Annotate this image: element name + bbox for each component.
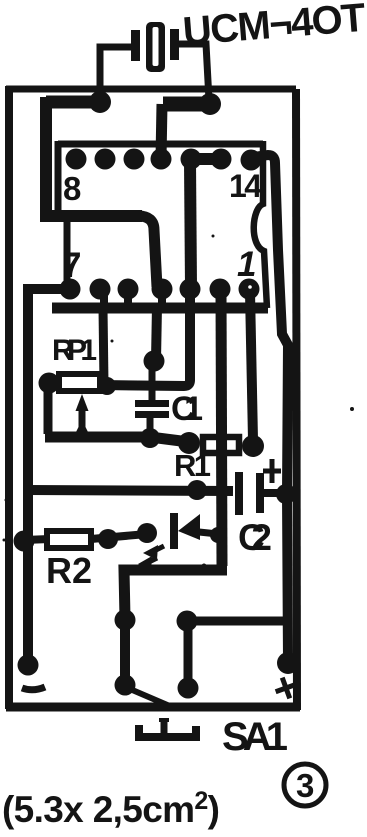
pad C1 top xyxy=(144,351,165,372)
pad minus terminal xyxy=(18,655,39,676)
svg-text:C2: C2 xyxy=(238,517,272,558)
switch SA1 symbol xyxy=(139,719,196,737)
resistor R2 body xyxy=(47,531,91,548)
pad right net bottom xyxy=(178,678,199,699)
wire pin2 elbow to switch pads xyxy=(124,570,227,618)
IC top row pads pins 8-14 xyxy=(66,149,262,171)
wire C1 top lead xyxy=(149,360,156,401)
IC bottom row pads pins 7-1 xyxy=(60,279,260,300)
crystal ZQ1 left lead xyxy=(100,47,134,98)
pad on C2 row xyxy=(187,480,207,500)
circled figure number 3 xyxy=(284,764,326,806)
plus sign near C2 xyxy=(263,459,281,483)
junction diode to pin2 column xyxy=(210,527,226,543)
svg-text:R2: R2 xyxy=(46,550,92,591)
wire left rail to pin7 xyxy=(28,284,70,294)
svg-text:R1: R1 xyxy=(174,448,211,483)
wire C1 column xyxy=(156,306,157,360)
pad on bus below C1 xyxy=(140,428,160,448)
wire pin3 column to RP1 row xyxy=(100,292,190,386)
wire diode anode lead xyxy=(199,532,218,534)
capacitor C2 plates xyxy=(235,472,284,515)
svg-text:1: 1 xyxy=(237,245,256,284)
svg-text:(5.3x 2,5cm2): (5.3x 2,5cm2) xyxy=(2,787,220,830)
pad crystal left xyxy=(89,91,111,113)
junction pad RP1 right xyxy=(98,377,116,395)
wire pin1 column down to R1 right pad xyxy=(250,292,253,440)
wire pin12 to pin3 vertical xyxy=(190,162,191,287)
wire right net horizontal xyxy=(187,617,287,626)
RP1 wiper arrow xyxy=(75,394,89,434)
resistor R1 body xyxy=(203,437,239,453)
pad R2 left on rail xyxy=(14,531,35,552)
wire RP1 left leg down xyxy=(44,390,53,434)
diode VD1 cathode bar xyxy=(170,513,178,549)
capacitor C1 xyxy=(135,400,169,434)
svg-text:RP1: RP1 xyxy=(52,334,97,367)
pad RP1 left xyxy=(39,373,60,394)
crystal ZQ1 left plate xyxy=(131,30,140,61)
wire bus under IC xyxy=(52,303,268,314)
LED arrows xyxy=(138,545,207,571)
crystal ZQ1 body xyxy=(146,22,165,72)
diode VD1 triangle xyxy=(178,514,200,540)
pad R1 left xyxy=(178,432,200,454)
wire bus C1/R1 row xyxy=(45,437,189,442)
svg-text:UCM¬4OT: UCM¬4OT xyxy=(181,0,367,54)
svg-text:3: 3 xyxy=(296,767,314,804)
wire right net vertical pair xyxy=(184,621,193,688)
wire bus R2/C2 row xyxy=(28,490,233,491)
svg-text:C1: C1 xyxy=(171,390,203,428)
pad R1 right xyxy=(242,435,264,457)
pad right net top xyxy=(177,611,198,632)
pad diode cathode xyxy=(137,523,157,543)
potentiometer RP1 body xyxy=(59,374,100,391)
IC U1 outline xyxy=(58,141,267,308)
scan speckles xyxy=(3,235,355,542)
wire pin2 long column xyxy=(221,292,222,566)
wire switch left column xyxy=(120,620,130,685)
pad switch left top xyxy=(115,610,136,631)
svg-text:8: 8 xyxy=(63,170,81,207)
minus sign xyxy=(22,687,45,690)
crystal ZQ1 right plate xyxy=(170,29,179,60)
wire crystal-left to pin7 column xyxy=(46,97,191,287)
wire R2 to diode xyxy=(91,534,147,539)
crystal ZQ1 right lead xyxy=(177,44,209,100)
wire crystal-right to pin11 xyxy=(161,104,209,159)
pad crystal right xyxy=(199,93,221,115)
plus sign bottom right xyxy=(272,674,300,702)
board outline border xyxy=(6,86,300,710)
junction pad C2 right xyxy=(276,484,296,504)
wire pad stubs to bus xyxy=(104,294,162,306)
svg-text:SA1: SA1 xyxy=(222,715,288,759)
wire pin6 column to RP1 xyxy=(103,308,104,384)
wire right rail from pin14 xyxy=(253,155,288,660)
wire pin12-pin13 dumbbell xyxy=(191,153,221,165)
pad switch left bottom xyxy=(115,675,136,696)
wire left rail vertical xyxy=(23,284,33,660)
svg-text:14: 14 xyxy=(229,168,262,204)
pad R2 right xyxy=(98,529,118,549)
switch wiper diagonal xyxy=(130,689,172,707)
pad plus terminal xyxy=(277,652,299,674)
wire R2 lead xyxy=(24,539,50,540)
